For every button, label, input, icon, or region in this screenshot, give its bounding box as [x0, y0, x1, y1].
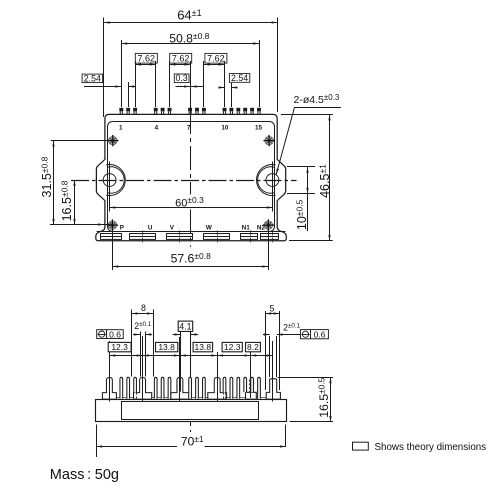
- dim 64 +/-1 overall width: [103, 18, 105, 118]
- svg-text:Shows theory dimensions: Shows theory dimensions: [375, 442, 487, 453]
- dim 7.62 box 2: [170, 53, 192, 63]
- svg-text:7: 7: [187, 124, 191, 131]
- dim 57.6 +/-0.8 screw span: [112, 230, 114, 270]
- dim 2.54 box right: [229, 74, 249, 83]
- svg-text:2.54: 2.54: [84, 73, 101, 83]
- dim 16.5 +/-0.5 height: [278, 377, 334, 379]
- svg-text:7.62: 7.62: [207, 53, 225, 63]
- terminal pitch dimension row: [109, 341, 111, 402]
- terminal slot U: [130, 234, 156, 240]
- terminal U tower (front view): [134, 378, 152, 400]
- control pins (front view): [120, 377, 123, 399]
- svg-text:1: 1: [119, 124, 123, 131]
- svg-text:W: W: [206, 225, 212, 232]
- dim lines 7.62 pin group gaps: [135, 61, 137, 107]
- dim 5 (N2 tab width): [265, 311, 267, 390]
- terminal N2 tower (front view): [266, 379, 280, 399]
- dim 16.5 +/-0.8: [74, 180, 76, 225]
- left mounting hole: [103, 174, 116, 187]
- terminal V tower (front view): [170, 378, 189, 400]
- dim 7.62 box 3: [205, 53, 227, 63]
- svg-text:Mass: Mass: [50, 467, 85, 483]
- dim 50.8 +/-0.8 pin span: [121, 40, 123, 107]
- tolerance frame left (pos 0.6): [97, 330, 124, 339]
- left mounting boss inner arc: [107, 167, 124, 193]
- svg-text:12.3: 12.3: [224, 342, 241, 352]
- dim 7.62 box 1: [135, 53, 157, 63]
- dim 2.54 box left: [82, 74, 103, 83]
- dim 60 +/-0.3 hole span: [109, 197, 111, 212]
- right mounting boss inner arc: [258, 167, 275, 193]
- dim box 8.2 (N1-N2): [246, 342, 261, 351]
- terminal P tower (front view): [102, 378, 116, 400]
- svg-text:5: 5: [270, 303, 275, 313]
- right mounting hole: [266, 174, 279, 187]
- svg-text::: :: [87, 467, 91, 483]
- baseplate recess: [122, 402, 259, 420]
- left mounting boss outer arc: [106, 165, 125, 196]
- module case outline (top view): [96, 114, 286, 240]
- dim 2+/-0.1 right (N2 tab thickness): [269, 336, 271, 377]
- center line bottom view: [190, 322, 192, 432]
- svg-text:13.8: 13.8: [158, 342, 175, 352]
- dim 70 +/-1 baseplate width: [96, 425, 98, 458]
- svg-text:15: 15: [255, 124, 263, 131]
- screw hole bottom-right: [263, 219, 274, 230]
- svg-text:0.6: 0.6: [314, 330, 326, 340]
- svg-text:7.62: 7.62: [138, 53, 156, 63]
- svg-text:N2: N2: [257, 225, 266, 232]
- svg-text:U: U: [148, 225, 153, 232]
- terminal slot V: [167, 234, 193, 240]
- terminal slot centerline ticks: [142, 230, 144, 243]
- svg-text:50g: 50g: [95, 467, 119, 483]
- svg-text:10: 10: [221, 124, 229, 131]
- terminal N1 step (front view): [246, 392, 257, 399]
- dim box 12.3 (W-N1): [222, 342, 242, 351]
- svg-text:P: P: [120, 225, 124, 232]
- screw hole top-left: [107, 135, 118, 146]
- dim box 12.3 (P-U): [108, 342, 131, 351]
- dim 46.5 +/-1 height: [281, 114, 333, 116]
- hole vertical centerlines: [109, 162, 111, 197]
- svg-text:8: 8: [141, 303, 146, 313]
- dim 31.5 +/-0.8: [51, 140, 108, 142]
- svg-text:0.3: 0.3: [175, 73, 187, 83]
- tolerance frame right (pos 0.6): [300, 330, 328, 339]
- svg-text:N1: N1: [242, 225, 251, 232]
- svg-text:4: 4: [155, 124, 159, 131]
- bottom flange top edge: [97, 231, 286, 233]
- signal pins 1-15 on top edge: [119, 108, 261, 115]
- dim 8 (U tab width): [131, 310, 133, 377]
- screw hole bottom-left: [107, 219, 118, 230]
- dim 0.3 box: [174, 74, 189, 83]
- svg-text:2.54: 2.54: [231, 73, 248, 83]
- svg-text:13.8: 13.8: [195, 342, 212, 352]
- svg-text:4.1: 4.1: [179, 322, 191, 332]
- svg-text:7.62: 7.62: [172, 53, 190, 63]
- dim 10 +/-0.5 ear face: [287, 166, 315, 168]
- dim box 13.8 (U-V): [156, 342, 178, 351]
- horizontal centerline through mounting holes: [71, 180, 297, 182]
- terminal slot W: [204, 234, 230, 240]
- case bottom edge line: [105, 397, 278, 399]
- module inner lid outline: [108, 122, 275, 232]
- dim box 13.8 (V-W): [193, 342, 213, 351]
- dim 2+/-0.1 left (U tab thickness): [140, 332, 142, 377]
- hidden pin lines (dashed): [133, 393, 135, 399]
- legend box: [353, 442, 369, 450]
- screw hole top-right: [263, 135, 274, 146]
- right mounting boss outer arc: [257, 164, 276, 195]
- terminal slot N2: [261, 234, 279, 240]
- terminal W tower (front view): [208, 378, 227, 400]
- terminal slot P: [101, 234, 122, 240]
- svg-text:12.3: 12.3: [111, 342, 128, 352]
- terminal slot N1: [241, 234, 258, 240]
- svg-text:0.6: 0.6: [109, 329, 121, 339]
- svg-text:8.2: 8.2: [247, 342, 259, 352]
- baseplate: [96, 400, 287, 422]
- dim 4.1 box (V tab): [180, 332, 182, 392]
- vertical centerline of top view: [190, 110, 192, 195]
